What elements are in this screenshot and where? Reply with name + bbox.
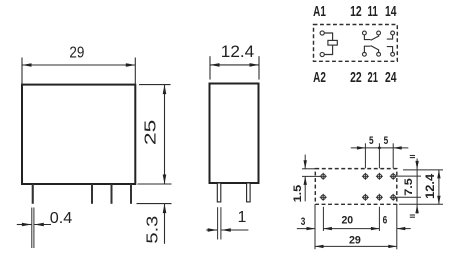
side view pin left	[217, 183, 221, 202]
svg-text:1.5: 1.5	[292, 185, 304, 203]
dim 12.4 right dimension line	[438, 170, 440, 204]
contact terminal 24 circle	[391, 52, 395, 56]
contact 12 fixed lead	[364, 35, 370, 40]
dim 3 arrow	[297, 228, 315, 230]
svg-text:29: 29	[69, 45, 84, 62]
dim 0.4 extension lines below pin 1	[31, 208, 33, 249]
svg-text:11: 11	[368, 4, 378, 20]
front view housing outline	[22, 85, 135, 184]
dim 5.3 arrow and leader	[164, 204, 166, 244]
dim 5-5 dimension line	[351, 147, 409, 149]
front view pin 3	[111, 184, 113, 204]
svg-text:7.5: 7.5	[403, 178, 415, 196]
svg-text:24: 24	[385, 70, 397, 86]
dim 5.3 extension line at pin tips	[137, 203, 172, 205]
svg-text:22: 22	[350, 70, 362, 86]
svg-text:5: 5	[384, 135, 389, 147]
side view pin right	[247, 183, 251, 202]
svg-text:5: 5	[369, 135, 374, 147]
contact 24 fixed lead	[387, 47, 393, 53]
pcb layout dashed outline	[315, 169, 397, 205]
pcb hole 24	[391, 195, 395, 199]
contact terminal 14 circle	[391, 31, 395, 35]
chain dim extension line rect-right	[396, 205, 398, 249]
pcb hole A1	[321, 174, 325, 178]
dim 25 dimension line	[164, 85, 166, 184]
front view pin 1 (leftmost)	[32, 184, 34, 204]
svg-text:29: 29	[349, 234, 361, 246]
dim 7.5 extension line bottom hole row	[397, 196, 422, 198]
dim 12.4 extension lines (side)	[209, 56, 211, 79]
contact 22 fixed lead	[364, 46, 370, 52]
front view pin 2	[91, 184, 93, 204]
dim 25 extension lines	[139, 84, 171, 86]
coil terminal A2 circle	[320, 52, 324, 56]
contact 11 movable arm	[371, 35, 379, 40]
pcb hole 12	[363, 174, 367, 178]
dim 12.4 dimension line (side)	[210, 64, 259, 66]
dim 1.5 arrows	[304, 155, 306, 169]
coil wire A1	[324, 33, 332, 40]
contact 21 movable arm	[371, 46, 379, 53]
pcb hole 14	[391, 174, 395, 178]
dim 1.5 extension lines	[302, 168, 315, 170]
dim 6 arrow	[397, 228, 411, 230]
dim 5-5 junction dot	[378, 147, 381, 150]
dim 20 dimension line	[323, 228, 379, 230]
svg-text:0.4: 0.4	[50, 210, 73, 227]
dim 7.5 extension line top hole row	[397, 175, 422, 177]
svg-text:12: 12	[350, 4, 362, 20]
svg-text:1: 1	[238, 209, 247, 226]
contact terminal 22 circle	[363, 52, 367, 56]
svg-text:A1: A1	[313, 4, 326, 20]
coil element rectangle	[328, 40, 337, 45]
chain dim extension line hole col A	[322, 207, 324, 231]
svg-text:20: 20	[341, 214, 353, 226]
dim 0.4 arrows	[17, 224, 32, 226]
coil terminal A1 circle	[320, 31, 324, 35]
pcb hole 21	[377, 195, 381, 199]
equal-margin mark top	[410, 155, 415, 157]
svg-text:6: 6	[383, 214, 388, 226]
dim 29 bottom dimension line	[315, 245, 397, 247]
dim 12.4 right extension lines	[403, 169, 443, 171]
pcb hole A2	[321, 195, 325, 199]
contact terminal 12 circle	[363, 31, 367, 35]
contact terminal 21 circle	[377, 52, 381, 56]
svg-text:12.4: 12.4	[423, 174, 437, 199]
side view housing outline	[210, 84, 259, 184]
front view pin 4	[130, 184, 132, 204]
svg-text:A2: A2	[313, 70, 326, 86]
svg-text:14: 14	[385, 4, 397, 20]
dim 5-5 extension lines	[364, 143, 366, 168]
svg-text:12.4: 12.4	[221, 43, 255, 61]
contact terminal 11 circle	[377, 31, 381, 35]
svg-text:5.3: 5.3	[145, 216, 162, 244]
equal-margin mark bottom	[410, 214, 415, 216]
contact 14 fixed lead	[387, 35, 393, 39]
dim 1 arrows	[206, 229, 217, 231]
svg-text:21: 21	[368, 70, 378, 86]
chain dim extension line hole col B	[378, 207, 380, 231]
pcb hole 11	[377, 174, 381, 178]
dim 29 dimension line (front)	[22, 64, 135, 66]
dim 7.5 dimension line with outside arrows	[416, 159, 418, 214]
coil wire A2	[324, 45, 332, 54]
chain dim extension line rect-left	[314, 205, 316, 249]
pcb hole 22	[363, 195, 367, 199]
dim 29 extension lines (front)	[21, 58, 23, 85]
dim 1 extension lines below side pin	[217, 207, 219, 239]
schematic dashed enclosure	[314, 25, 398, 62]
svg-text:3: 3	[301, 216, 306, 228]
svg-text:25: 25	[143, 119, 160, 145]
